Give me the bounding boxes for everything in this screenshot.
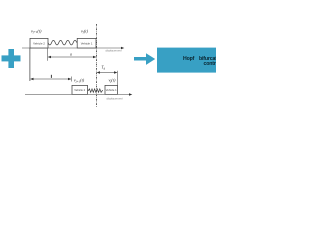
dash-dot reference line: [96, 24, 98, 108]
spring (lower, compressed zigzag): [88, 89, 104, 92]
vehicle 1 box (lower): [105, 85, 118, 94]
lower ground line: [25, 94, 131, 96]
svg-text:Vehicle 1: Vehicle 1: [106, 88, 117, 92]
tick under vehicle 2 front: [47, 48, 49, 61]
left reference line: [29, 48, 31, 81]
delay arrow T_d: [97, 71, 118, 73]
svg-text:Hopf: Hopf: [183, 56, 195, 62]
travelled distance arrow (lower left): [30, 78, 72, 80]
svg-text:a: a: [70, 52, 72, 56]
headway arrow a: [48, 56, 97, 58]
svg-text:Vehicle 1: Vehicle 1: [81, 41, 93, 45]
svg-text:displacement: displacement: [105, 49, 121, 53]
big teal arrow: [134, 53, 155, 65]
teal result box: [157, 48, 217, 73]
vehicle 2 box (lower): [72, 85, 88, 94]
label l: [51, 75, 52, 78]
svg-text:displacement: displacement: [106, 96, 122, 100]
plus sign (teal): [2, 49, 21, 68]
upper ground line: [22, 47, 123, 49]
svg-text:Vehicle 2: Vehicle 2: [74, 88, 85, 92]
lower ground arrowhead: [129, 93, 132, 96]
upper ground arrowhead: [121, 47, 124, 50]
svg-text:Vehicle 2: Vehicle 2: [33, 41, 45, 45]
svg-text:control: control: [204, 61, 217, 67]
tick at lower vehicle 1 front: [117, 71, 119, 86]
vehicle 1 box (upper): [77, 38, 96, 48]
tick at arrow end: [71, 77, 73, 82]
vehicle 2 box (upper): [30, 38, 48, 48]
spring (upper, sine coil): [48, 40, 77, 45]
